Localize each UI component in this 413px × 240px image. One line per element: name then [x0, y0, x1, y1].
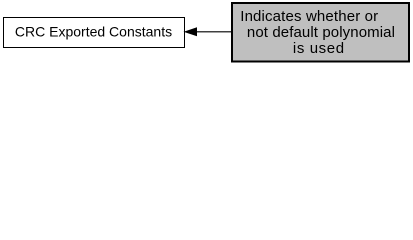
node: CRC Exported Constants (linked group box): [4, 18, 185, 48]
svg-text:not default polynomial: not default polynomial: [247, 24, 395, 41]
node: current item (gray, brief description): [232, 3, 409, 62]
wire: [195, 31, 231, 33]
svg-text:is used: is used: [293, 40, 345, 57]
edge: dependency arrow from gray node to CRC Exported Constants: [185, 28, 231, 36]
arrowhead: [185, 28, 197, 36]
svg-text:Indicates whether or: Indicates whether or: [240, 8, 378, 25]
svg-text:CRC Exported Constants: CRC Exported Constants: [15, 24, 172, 40]
